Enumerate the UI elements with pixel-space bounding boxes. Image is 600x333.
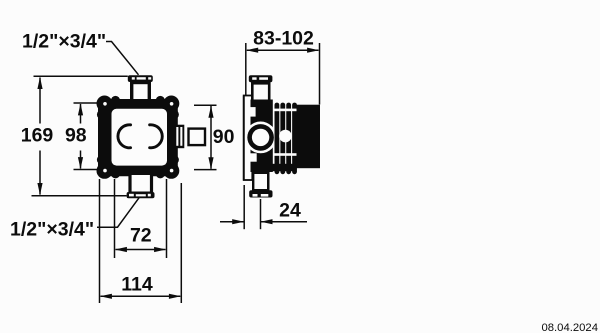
cartridge donut <box>245 121 277 153</box>
arrow 169 down <box>37 183 42 195</box>
svg-text:169: 169 <box>21 124 54 146</box>
leader line bottom label <box>97 198 139 227</box>
arrow 114 left <box>100 294 112 299</box>
arrow 24 left (outside pointing right) <box>232 219 244 224</box>
dim 72 extension line right <box>166 179 168 258</box>
arrow 90 down <box>208 157 213 169</box>
dim 24 extension line left <box>243 185 245 229</box>
corner lobe bottom-left <box>97 155 121 179</box>
side top pipe <box>249 75 273 101</box>
ribbed section <box>251 103 297 175</box>
pipe wall <box>251 82 271 101</box>
dim 114 extension line right <box>180 183 182 303</box>
side bottom pipe <box>249 171 272 198</box>
dim 90 extension line bottom <box>194 169 217 171</box>
arrow 83-102 left <box>246 48 258 53</box>
arrow 90 up <box>208 106 213 118</box>
dim 114 line <box>101 295 181 297</box>
side body block <box>251 100 273 173</box>
dim 90 line <box>210 106 212 169</box>
svg-text:1/2"×3/4": 1/2"×3/4" <box>22 31 106 53</box>
body slots near plate <box>248 107 256 117</box>
dim 72 extension line left <box>114 179 116 258</box>
wall plate <box>244 96 253 181</box>
svg-text:114: 114 <box>121 273 153 295</box>
dim 90 extension line top <box>194 104 217 106</box>
pipe bore <box>132 175 150 192</box>
arrow 114 right <box>169 294 181 299</box>
dim 72 line <box>116 249 166 251</box>
svg-text:72: 72 <box>130 225 152 247</box>
arrow 98 up <box>78 103 83 115</box>
corner lobe top-left <box>97 96 121 120</box>
bottom flange <box>127 192 155 198</box>
dim 24 line left tail <box>220 221 244 223</box>
corner lobe bottom-right <box>156 155 180 179</box>
dim 24 line right tail <box>261 221 308 223</box>
arrow 83-102 right <box>307 48 319 53</box>
leader line top label <box>106 42 139 75</box>
svg-text:24: 24 <box>279 200 301 222</box>
pipe bore <box>133 84 147 99</box>
arrow 169 up <box>37 77 42 89</box>
pipe wall <box>128 175 153 193</box>
inner square cavity <box>112 109 168 166</box>
dim 169 line <box>39 78 41 124</box>
right outlet bracket <box>175 125 185 149</box>
pipe bore <box>254 174 267 189</box>
arrow 72 left <box>115 247 127 252</box>
small circle <box>279 130 292 143</box>
pipe wall <box>252 171 270 191</box>
rear block <box>297 105 321 169</box>
dim 24 extension line right <box>260 199 262 229</box>
top pipe front view <box>128 75 153 100</box>
pipe bore <box>254 85 268 101</box>
white groove rows <box>275 109 297 112</box>
body frame <box>98 99 178 176</box>
wall plate left edge redrawn <box>243 96 245 181</box>
dim 98 extension line bottom <box>74 169 99 171</box>
arrow 24 right (outside pointing left) <box>261 219 273 224</box>
side top flange <box>249 75 273 82</box>
corner lobe top-right <box>156 96 180 120</box>
square symbol for 90 <box>189 129 206 146</box>
dim 98 extension line top <box>74 102 99 104</box>
dim 83-102 extension line left <box>245 43 247 96</box>
right arc <box>150 125 163 148</box>
dim 169 extension line top <box>34 75 128 77</box>
pipe wall <box>130 80 151 100</box>
bottom solid band <box>251 164 297 171</box>
arrow 98 down <box>78 157 83 169</box>
svg-text:1/2"×3/4": 1/2"×3/4" <box>10 219 94 241</box>
screw hole dots <box>103 102 173 172</box>
svg-text:90: 90 <box>213 126 235 148</box>
bottom pipe front view <box>127 175 155 198</box>
svg-text:08.04.2024: 08.04.2024 <box>541 322 598 333</box>
top flange <box>128 75 153 82</box>
left arc <box>118 125 131 148</box>
svg-text:83-102: 83-102 <box>253 28 314 50</box>
dim 114 extension line left <box>99 179 101 303</box>
valve body front view <box>97 96 180 179</box>
svg-text:98: 98 <box>65 124 87 146</box>
dim 169 extension line bottom <box>32 195 127 197</box>
arrow 72 right <box>154 247 166 252</box>
dim 83-102 line <box>247 49 319 51</box>
dim 98 line <box>80 104 82 124</box>
dim 83-102 extension line right <box>319 43 321 105</box>
side bottom flange <box>249 190 272 197</box>
